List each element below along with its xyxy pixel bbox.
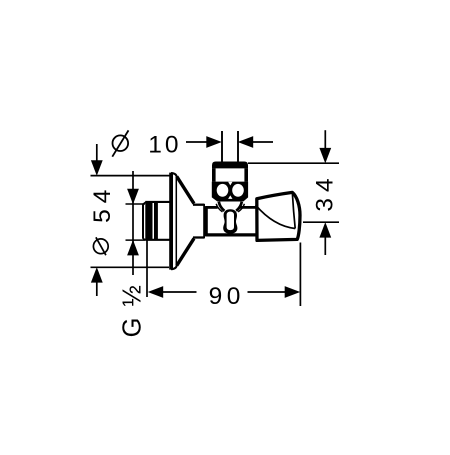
- thread outline bottom: [145, 239, 171, 241]
- compression nut cap: [212, 162, 248, 169]
- dimension Ø10 line right segment with arrow: [238, 136, 273, 148]
- thread G1/2 dimension line with arrows: [127, 171, 139, 275]
- bonnet top notch: [228, 182, 232, 186]
- dimension Ø54 top extension line: [91, 175, 171, 177]
- bonnet bottom notch: [228, 195, 232, 199]
- seat wing left outer: [216, 204, 222, 212]
- handle front face edge: [292, 194, 295, 229]
- seat wing left inner: [219, 202, 225, 211]
- thread band 2: [154, 202, 158, 240]
- inlet pipe chamfer top: [143, 202, 146, 204]
- dimension Ø10 label: [112, 130, 181, 158]
- svg-text:54: 54: [89, 184, 116, 223]
- bonnet circle right: [232, 184, 244, 197]
- dimension 90 line with right arrow: [248, 286, 301, 298]
- valve bonnet block: [212, 182, 248, 202]
- valve body left cap: [205, 206, 208, 236]
- inlet pipe chamfer bottom: [143, 239, 146, 240]
- valve body top edge left segment: [205, 206, 217, 209]
- valve body top edge right segment: [240, 206, 256, 209]
- seat wing right inner: [236, 202, 242, 211]
- dimension Ø54 bottom extension line: [91, 266, 170, 268]
- dimension Ø54 lower line with up arrow: [91, 267, 103, 296]
- handle cone contour: [256, 205, 296, 228]
- svg-text:90: 90: [209, 283, 245, 310]
- dimension 34 lower line with up arrow: [319, 222, 331, 255]
- dimension Ø54 label: [89, 184, 116, 256]
- handle knob outline: [257, 192, 300, 240]
- svg-text:34: 34: [311, 172, 338, 211]
- thread G1/2 dimension extension lines: [126, 204, 146, 240]
- dimension 90 right extension line: [299, 243, 301, 307]
- escutcheon neck bottom: [193, 236, 205, 238]
- svg-text:10: 10: [148, 131, 181, 158]
- thread outline top: [145, 201, 171, 203]
- outlet spout inner slot: [227, 212, 234, 231]
- outlet spout drop: [223, 209, 237, 234]
- bonnet circle left: [217, 184, 229, 197]
- compression nut right wall: [244, 168, 248, 181]
- dimension Ø54 upper line with down arrow: [91, 144, 103, 176]
- dimension 34 upper line with down arrow: [319, 130, 331, 163]
- inlet pipe end cap: [142, 204, 144, 239]
- seat wing right outer: [238, 204, 244, 212]
- escutcheon neck step: [203, 204, 205, 238]
- outlet pipe extension lines: [222, 131, 238, 162]
- escutcheon cone top edge: [177, 177, 194, 204]
- dimension Ø10 line left segment with arrow: [186, 136, 222, 148]
- thread band 1: [145, 202, 152, 240]
- dimension 34 top extension line: [248, 162, 339, 164]
- dimension 34 bottom extension line (centerline): [303, 221, 339, 223]
- valve body bottom edge: [205, 233, 256, 236]
- escutcheon face: [171, 173, 177, 270]
- svg-text:G ½: G ½: [119, 283, 147, 337]
- compression nut left wall: [212, 168, 216, 181]
- escutcheon cone bottom edge: [177, 238, 194, 265]
- dimension 90 line with left arrow: [148, 286, 197, 298]
- escutcheon neck top: [193, 204, 205, 206]
- dimension 90 left extension line: [146, 240, 148, 297]
